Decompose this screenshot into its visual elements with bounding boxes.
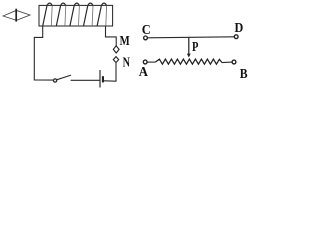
battery E [100, 70, 104, 88]
svg-text:P: P [192, 40, 199, 55]
svg-text:A: A [139, 65, 149, 80]
wire: A to resistor [147, 61, 155, 63]
contact M (diamond) [113, 46, 119, 53]
svg-text:M: M [120, 34, 130, 49]
switch S (open) [54, 75, 72, 82]
wire: resistor to B [222, 61, 232, 64]
coil L (electromagnet) [39, 3, 113, 26]
wire: switch to battery [71, 79, 100, 81]
terminal B (circle) [232, 60, 236, 64]
svg-text:C: C [142, 23, 151, 38]
wire: battery to right riser up to contact N [104, 63, 116, 81]
wiper P (arrow onto resistor) [187, 37, 191, 57]
compass needle [3, 9, 30, 22]
terminal A (circle) [143, 60, 147, 64]
svg-text:B: B [240, 67, 248, 82]
wire: coil left lead down with jog [34, 26, 53, 80]
contact N (diamond) [113, 57, 118, 63]
resistor R (zigzag A-B) [155, 59, 222, 64]
terminal D (circle) [234, 35, 238, 39]
wire: contact M up and over to coil right lead [106, 26, 117, 46]
svg-text:N: N [123, 56, 130, 71]
wire: top rail C to D [148, 37, 235, 38]
terminal C (circle) [144, 36, 148, 40]
svg-text:D: D [235, 21, 244, 36]
